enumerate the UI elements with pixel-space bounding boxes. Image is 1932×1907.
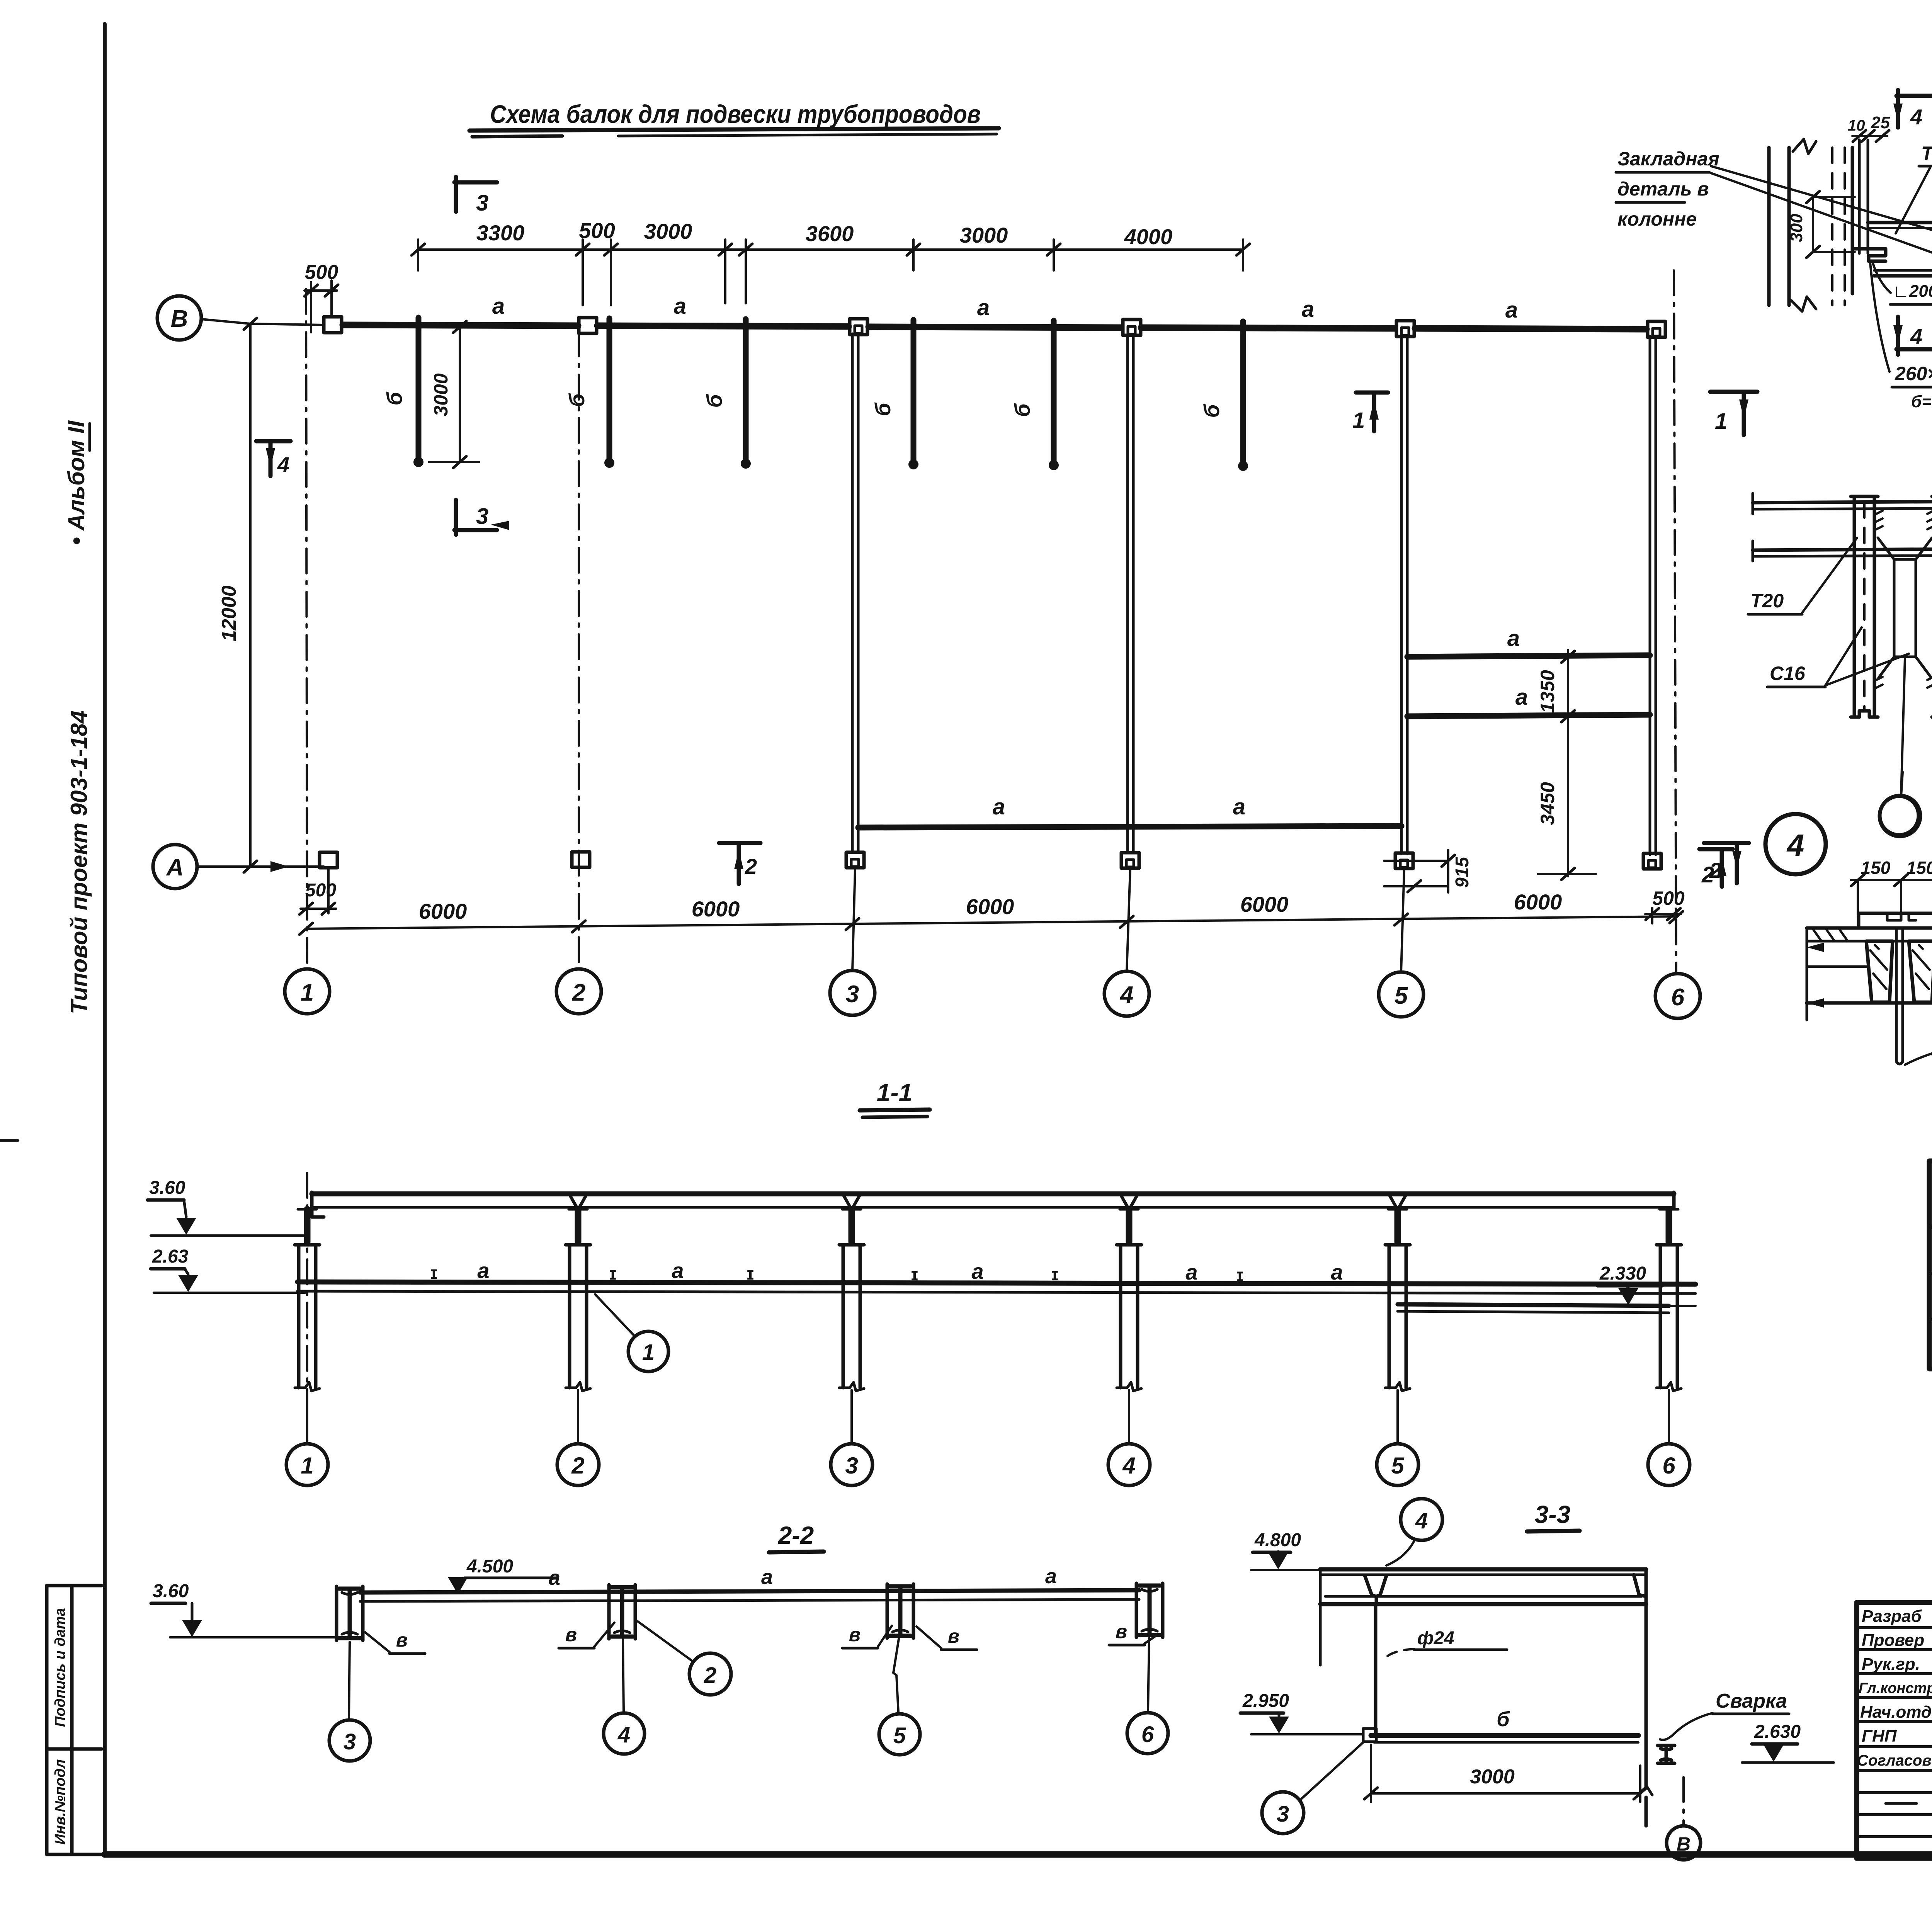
- circle 4 s11: [1108, 1444, 1150, 1485]
- column square B6: [1648, 321, 1665, 337]
- top dim line: [418, 248, 1243, 251]
- svg-text:12000: 12000: [218, 585, 240, 641]
- grid 3 leader to circle: [852, 869, 855, 970]
- row line b: [1929, 1318, 1932, 1321]
- dim 915: [1384, 860, 1448, 862]
- welded I end s33: [1658, 1746, 1675, 1763]
- column square B5: [1396, 321, 1414, 337]
- column 4 section: [1119, 1245, 1122, 1388]
- slab top line d4: [1807, 926, 1932, 930]
- svg-text:ɪ: ɪ: [609, 1263, 617, 1283]
- column square A5: [1395, 853, 1413, 869]
- svg-text:ɪ: ɪ: [1236, 1265, 1244, 1285]
- section flag 1 low: [1710, 390, 1757, 394]
- circle 5 s11: [1377, 1444, 1418, 1485]
- roof joint at grid4: [1121, 1195, 1138, 1207]
- embed plate d4: [1859, 913, 1932, 928]
- support angle bracket: [1854, 249, 1886, 261]
- wall column grid4: [1126, 335, 1129, 853]
- svg-text:915: 915: [1452, 857, 1473, 888]
- svg-text:6: 6: [1141, 1722, 1154, 1747]
- hanger beam b2: [607, 318, 612, 461]
- svg-text:а: а: [492, 294, 505, 319]
- callout circle 1: [628, 1331, 668, 1372]
- bottom sheet border: [105, 1851, 1932, 1858]
- column 3 section: [842, 1245, 845, 1388]
- svg-text:6000: 6000: [1240, 892, 1289, 916]
- svg-text:5: 5: [1395, 982, 1408, 1009]
- column 1 section: [297, 1245, 301, 1388]
- svg-text:2.950: 2.950: [1242, 1691, 1289, 1711]
- row A axis line: [197, 865, 324, 868]
- svg-text:3-3: 3-3: [1535, 1501, 1571, 1528]
- grid 5 leader to circle: [1401, 869, 1404, 972]
- hanger strut col2: [575, 1209, 582, 1242]
- svg-text:2: 2: [1709, 858, 1721, 882]
- svg-text:3.60: 3.60: [149, 1178, 185, 1198]
- column bottom break: [1791, 297, 1816, 311]
- svg-text:4: 4: [1122, 1453, 1135, 1479]
- anchor rod d4: [1895, 928, 1898, 1062]
- svg-text:а: а: [674, 294, 686, 319]
- main beam bottom: [298, 1291, 1696, 1293]
- svg-text:а: а: [672, 1258, 684, 1283]
- svg-text:В: В: [1677, 1833, 1690, 1855]
- svg-text:260×300: 260×300: [1895, 363, 1932, 384]
- detail circle 4: [1765, 814, 1826, 874]
- svg-text:Провер: Провер: [1862, 1631, 1924, 1650]
- dim 3000 vertical at b1: [459, 327, 461, 462]
- section mark 4 left: [256, 439, 291, 444]
- column 5 section: [1388, 1245, 1391, 1388]
- svg-text:2: 2: [571, 1453, 584, 1479]
- column 2 section: [568, 1245, 571, 1388]
- slab left edge s33: [1319, 1569, 1322, 1665]
- svg-text:Схема балок для подвески трубо: Схема балок для подвески трубопроводов: [490, 100, 981, 128]
- beam a right upper: [1407, 655, 1650, 657]
- tb row lines left: [1857, 1626, 1932, 1629]
- svg-text:4: 4: [617, 1722, 630, 1747]
- svg-text:3: 3: [476, 504, 488, 529]
- svg-text:ГНП: ГНП: [1862, 1727, 1897, 1746]
- grid circle 1: [285, 969, 330, 1014]
- svg-text:а: а: [971, 1259, 983, 1283]
- circle 4 s22: [604, 1713, 645, 1754]
- beam a span B1-B2: [343, 325, 578, 326]
- beam a right lower: [1407, 715, 1650, 716]
- svg-text:Сварка: Сварка: [1716, 1690, 1787, 1712]
- leader col3 to circle: [850, 1390, 853, 1443]
- svg-text:в: в: [849, 1624, 861, 1645]
- roof slab top chord: [312, 1191, 1674, 1197]
- svg-text:1: 1: [301, 1453, 313, 1479]
- circle 1 s11: [286, 1444, 328, 1485]
- row line a: [1929, 1272, 1932, 1275]
- leaders from note: [1711, 166, 1932, 236]
- column square A2: [572, 852, 590, 867]
- callout circle 4 s33: [1401, 1499, 1442, 1540]
- svg-text:б: б: [1199, 404, 1224, 418]
- wall column grid5: [1400, 335, 1403, 854]
- svg-text:а: а: [1505, 297, 1518, 323]
- svg-text:2.63: 2.63: [152, 1246, 189, 1267]
- svg-text:1: 1: [642, 1340, 655, 1365]
- grid circle B: [157, 296, 201, 340]
- callout circle 2 s22: [689, 1653, 731, 1695]
- hanger beam b5: [1051, 321, 1057, 463]
- svg-text:б: б: [382, 391, 406, 405]
- svg-text:Т20: Т20: [1750, 590, 1784, 612]
- svg-text:С16: С16: [1770, 663, 1806, 684]
- circle 3 s22: [329, 1720, 370, 1761]
- svg-text:4.800: 4.800: [1254, 1530, 1301, 1550]
- column square B3: [850, 319, 867, 335]
- svg-text:∟200×125×16: ∟200×125×16: [1893, 282, 1932, 301]
- roof right edge: [1672, 1192, 1676, 1208]
- lower beam pair 55L: [1753, 549, 1932, 550]
- svg-text:б=10: б=10: [1911, 392, 1932, 411]
- dim extension lines: [417, 240, 419, 270]
- tb dashes col4: [1886, 1638, 1932, 1803]
- svg-text:2.330: 2.330: [1599, 1263, 1646, 1284]
- slab left rib T s33: [1365, 1576, 1386, 1604]
- grid circle A: [153, 845, 197, 889]
- weld ticks 55L: [1876, 511, 1932, 688]
- svg-text:10: 10: [1848, 117, 1865, 134]
- svg-text:а: а: [549, 1566, 560, 1589]
- svg-text:150: 150: [1906, 858, 1932, 878]
- beam a span B2-B3: [597, 326, 849, 326]
- section mark 1 plan: [1356, 391, 1388, 395]
- leader Ibeam3 circle5: [893, 1639, 899, 1712]
- svg-text:а: а: [1331, 1260, 1343, 1284]
- leader to circle 55L: [1901, 658, 1905, 795]
- svg-text:а: а: [993, 794, 1005, 819]
- column square A6: [1643, 853, 1661, 869]
- leader col5 to circle: [1396, 1390, 1399, 1443]
- svg-text:3000: 3000: [644, 219, 692, 243]
- svg-text:6000: 6000: [692, 897, 740, 921]
- svg-text:Гл.констр: Гл.констр: [1859, 1680, 1932, 1696]
- column square B1: [324, 317, 342, 333]
- overline on II: [88, 423, 91, 450]
- upper beam pair 55L: [1753, 501, 1932, 503]
- svg-text:3: 3: [344, 1729, 356, 1754]
- I column 6 s22: [1139, 1586, 1160, 1635]
- beam a s22 bottom: [360, 1599, 1139, 1601]
- column square A3: [846, 852, 864, 868]
- svg-text:Инв.№подл: Инв.№подл: [52, 1759, 68, 1845]
- leader to 260x300: [1870, 263, 1889, 372]
- svg-text:б: б: [1497, 1708, 1510, 1731]
- unnamed circle above d4: [1880, 796, 1918, 835]
- svg-text:1: 1: [301, 979, 314, 1006]
- svg-text:3300: 3300: [476, 221, 525, 245]
- dim 3450: [1567, 723, 1569, 876]
- svg-text:4: 4: [1119, 982, 1133, 1008]
- wall column 6: [1649, 336, 1651, 855]
- hatch band d4: [1812, 928, 1932, 941]
- hanger strut col1: [304, 1209, 311, 1242]
- svg-text:б: б: [871, 402, 895, 416]
- svg-text:в: в: [948, 1625, 959, 1647]
- svg-text:3: 3: [476, 190, 488, 216]
- section flag 4 bottom: [1896, 317, 1900, 355]
- svg-text:Разраб: Разраб: [1862, 1607, 1922, 1626]
- embed plate verticals: [1858, 140, 1861, 253]
- table frame: [1929, 1161, 1932, 1369]
- b beam s33: [1371, 1733, 1638, 1738]
- hanger rod f24 s33: [1374, 1604, 1378, 1732]
- svg-text:деталь в: деталь в: [1617, 178, 1709, 200]
- leader Ibeam1 circle3: [349, 1642, 350, 1719]
- svg-text:6000: 6000: [419, 899, 467, 923]
- svg-text:б: б: [565, 393, 589, 407]
- leader Ibeam2 circle4: [623, 1640, 624, 1712]
- slab bottom lines d4: [1807, 965, 1869, 968]
- main beam top: [298, 1282, 1696, 1284]
- lower beam bottom: [1398, 1311, 1669, 1313]
- svg-text:В: В: [171, 306, 188, 332]
- slab band s33: [1320, 1567, 1646, 1572]
- leader col1 to circle: [306, 1390, 308, 1443]
- grid line 2 dash: [578, 331, 580, 969]
- section mark 3 top: [454, 177, 458, 212]
- leader to L200 label: [1872, 262, 1891, 293]
- roof left edge: [312, 1192, 324, 1217]
- column square A1: [320, 852, 337, 868]
- header row line2: [1929, 1225, 1932, 1229]
- svg-text:3: 3: [845, 1453, 858, 1479]
- section flag 2 d4: [1704, 841, 1749, 845]
- svg-text:2.630: 2.630: [1754, 1722, 1801, 1742]
- svg-text:а: а: [1185, 1260, 1197, 1284]
- hanger strut col4: [1126, 1209, 1133, 1242]
- column square A4: [1121, 853, 1139, 868]
- hanger beam b3: [743, 319, 749, 461]
- svg-text:А: А: [166, 854, 184, 881]
- b beam end square s33: [1363, 1729, 1376, 1742]
- svg-text:6: 6: [1671, 984, 1685, 1011]
- svg-text:300: 300: [1787, 214, 1806, 242]
- svg-text:• Альбом II: • Альбом II: [63, 420, 89, 545]
- 12000 dimension line: [249, 324, 252, 867]
- circle 3 s11: [831, 1444, 872, 1485]
- svg-text:500: 500: [579, 218, 615, 243]
- svg-text:ɪ: ɪ: [430, 1263, 438, 1283]
- grid 4 leader to circle: [1127, 869, 1130, 971]
- svg-text:2: 2: [572, 979, 585, 1006]
- roof joint at grid2: [570, 1195, 587, 1207]
- grid1 dash line section: [306, 1173, 308, 1442]
- right column s33: [1645, 1569, 1648, 1788]
- grid circle 5: [1379, 972, 1423, 1017]
- grid circle 2: [556, 969, 601, 1014]
- svg-text:4000: 4000: [1124, 224, 1173, 249]
- roof joint at grid5: [1389, 1195, 1406, 1207]
- slab right hook s33: [1634, 1575, 1646, 1596]
- beam a span B5-B6: [1415, 328, 1646, 329]
- column flange lines: [1767, 148, 1771, 305]
- svg-text:3450: 3450: [1537, 782, 1558, 825]
- grid circle 4: [1104, 971, 1149, 1016]
- svg-text:а: а: [761, 1565, 773, 1589]
- svg-text:500: 500: [305, 880, 336, 901]
- circle 6 s11: [1648, 1444, 1690, 1485]
- svg-text:6000: 6000: [1514, 890, 1562, 914]
- grid circle B s33: [1667, 1826, 1701, 1860]
- svg-text:2-2: 2-2: [778, 1521, 814, 1549]
- roof joint at grid3: [843, 1195, 860, 1207]
- svg-text:ɪ: ɪ: [911, 1264, 918, 1284]
- hanger strut col3: [849, 1209, 855, 1242]
- svg-text:1-1: 1-1: [877, 1079, 913, 1106]
- svg-text:3000: 3000: [960, 223, 1008, 247]
- dim 300 embed: [1812, 197, 1814, 252]
- svg-text:Типовой проект 903-1-184: Типовой проект 903-1-184: [66, 710, 92, 1014]
- circle 5 s22: [879, 1714, 920, 1755]
- svg-text:в: в: [1116, 1621, 1127, 1642]
- svg-text:2: 2: [745, 854, 757, 879]
- svg-text:3.60: 3.60: [153, 1581, 189, 1601]
- svg-text:1: 1: [1352, 408, 1365, 433]
- column square B2: [579, 318, 597, 333]
- column top break: [1793, 139, 1816, 154]
- svg-text:4: 4: [277, 452, 289, 477]
- slab left edge arrows d4: [1806, 928, 1808, 1020]
- left sheet border: [103, 24, 107, 1855]
- small tick on sheet edge: [0, 1139, 18, 1142]
- dim 1350: [1567, 650, 1569, 723]
- unnamed circle 55L: [1879, 795, 1920, 836]
- svg-text:5: 5: [1391, 1453, 1405, 1479]
- svg-text:в: в: [565, 1624, 577, 1645]
- circle 6 s22: [1127, 1713, 1168, 1754]
- I column 5 s22: [890, 1586, 911, 1636]
- row B axis line: [201, 319, 324, 325]
- bottom dim line 6000s: [306, 916, 1676, 929]
- hanger strut col5: [1395, 1209, 1401, 1242]
- svg-text:колонне: колонне: [1617, 208, 1697, 230]
- svg-text:3: 3: [1277, 1802, 1289, 1827]
- svg-text:500: 500: [1652, 887, 1685, 909]
- svg-text:б: б: [1010, 403, 1034, 417]
- svg-text:4: 4: [1910, 105, 1922, 129]
- section mark 3 bottom: [454, 500, 458, 535]
- hanger beam b6: [1240, 321, 1246, 464]
- callout circle 3 s33: [1262, 1792, 1304, 1834]
- beam T20 bottom flange: [1874, 274, 1932, 278]
- column 6 section: [1659, 1245, 1662, 1388]
- beam T20 top flange: [1868, 221, 1932, 224]
- section mark 2 plan top: [719, 841, 760, 845]
- hanger strut col6: [1666, 1209, 1672, 1242]
- grid line 6 dash: [1674, 270, 1676, 973]
- hanger beam b4: [911, 320, 917, 462]
- svg-text:2: 2: [704, 1663, 716, 1688]
- svg-text:4: 4: [1786, 828, 1804, 862]
- svg-text:а: а: [1045, 1565, 1057, 1588]
- column square B4: [1123, 320, 1141, 335]
- svg-text:Нач.отд: Нач.отд: [1860, 1703, 1932, 1722]
- svg-text:Закладная: Закладная: [1617, 148, 1719, 170]
- svg-text:а: а: [1233, 794, 1245, 819]
- leader Ibeam4 circle6: [1148, 1638, 1149, 1711]
- svg-text:3: 3: [846, 981, 859, 1008]
- roof slab bottom chord: [312, 1206, 1674, 1209]
- beam a span B3-B4: [869, 327, 1121, 328]
- svg-text:в: в: [396, 1629, 408, 1651]
- beam a s22 top: [360, 1590, 1139, 1593]
- wall column grid3: [851, 334, 854, 852]
- beam a mid row: [858, 826, 1401, 828]
- beam a span B4-B5: [1141, 328, 1395, 328]
- lower beam top 2.330: [1398, 1304, 1669, 1306]
- svg-text:ф24: ф24: [1417, 1628, 1454, 1649]
- svg-text:4: 4: [1415, 1508, 1428, 1533]
- grid circle 6: [1655, 974, 1700, 1018]
- leader col4 to circle: [1128, 1390, 1130, 1443]
- title block frame: [1857, 1603, 1932, 1858]
- circle 2 s11: [557, 1444, 599, 1485]
- svg-text:ɪ: ɪ: [747, 1263, 754, 1283]
- grid line 1 dash: [306, 289, 307, 969]
- leader col2 to circle: [577, 1390, 579, 1443]
- svg-text:4: 4: [1910, 324, 1922, 348]
- svg-text:3600: 3600: [806, 221, 854, 246]
- left rib d4: [1866, 941, 1893, 1002]
- svg-text:3000: 3000: [430, 373, 452, 416]
- I column 4 s22: [612, 1587, 633, 1637]
- grid circle 3: [830, 970, 875, 1015]
- svg-text:1350: 1350: [1537, 670, 1558, 713]
- svg-text:а: а: [1302, 297, 1314, 322]
- svg-text:Согласов: Согласов: [1857, 1752, 1932, 1769]
- svg-text:6: 6: [1662, 1453, 1675, 1479]
- margin stamp boxes: [47, 1584, 102, 1587]
- hanger beam b1: [416, 318, 422, 460]
- section flag 4 top: [1896, 90, 1900, 127]
- svg-text:б: б: [702, 394, 726, 408]
- svg-text:а: а: [1515, 685, 1528, 710]
- I column 3 s22: [339, 1589, 360, 1638]
- svg-text:5: 5: [893, 1723, 906, 1748]
- svg-text:Рук.гр.: Рук.гр.: [1862, 1655, 1920, 1674]
- svg-text:3000: 3000: [1470, 1766, 1515, 1788]
- svg-text:а: а: [977, 295, 990, 320]
- svg-text:ɪ: ɪ: [1051, 1264, 1059, 1284]
- svg-text:Подпись и дата: Подпись и дата: [52, 1608, 68, 1727]
- svg-text:Т20: Т20: [1921, 143, 1932, 164]
- I20 web between channels 55L: [1878, 538, 1932, 678]
- svg-text:1: 1: [1715, 409, 1727, 434]
- svg-text:6000: 6000: [966, 894, 1014, 919]
- title underline: [469, 128, 999, 131]
- svg-text:а: а: [1507, 626, 1520, 651]
- channel band left 55L: [1853, 496, 1856, 717]
- leader col6 to circle: [1668, 1390, 1670, 1443]
- svg-text:500: 500: [305, 261, 338, 284]
- svg-text:4.500: 4.500: [466, 1556, 513, 1577]
- right rib d4: [1909, 941, 1932, 1002]
- svg-text:а: а: [477, 1258, 489, 1283]
- section mark 2 plan right: [1699, 847, 1733, 852]
